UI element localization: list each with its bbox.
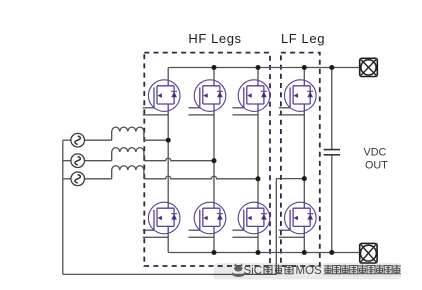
AC source V1 phase A <box>71 133 85 147</box>
AC source V3 phase C <box>71 172 85 186</box>
wire phase C from source to inductor <box>63 178 71 180</box>
watermark bar <box>214 263 402 279</box>
AC source V2 phase B <box>71 154 85 168</box>
mosfet Q2 HF leg 1 low side <box>143 202 180 237</box>
mosfet Q7 LF leg high side <box>279 80 316 115</box>
wire HF leg 2 vertical <box>213 68 215 253</box>
junction dot phase A leg1 <box>166 138 171 143</box>
junction dot leg2 bottom <box>212 250 217 255</box>
svg-text:SiC: SiC <box>244 265 263 277</box>
junction dot LF leg top <box>302 65 307 70</box>
svg-text:VDC: VDC <box>364 146 387 158</box>
wire neutral riser between boxes <box>275 179 277 275</box>
wire neutral left bus vertical <box>62 140 64 274</box>
wire neutral bottom run <box>63 273 276 275</box>
watermark mascot icon <box>232 263 245 277</box>
mosfet Q6 HF leg 3 low side <box>233 202 270 237</box>
mosfet Q3 HF leg 2 high side <box>189 80 226 115</box>
wire neutral to LF leg midpoint <box>276 178 304 180</box>
svg-text:LF Leg: LF Leg <box>281 31 325 46</box>
junction dot leg2 top <box>212 65 217 70</box>
wire phase B from source to inductor <box>63 160 71 162</box>
inductor L3 <box>112 166 144 179</box>
svg-text:OUT: OUT <box>365 160 388 172</box>
dashed box HF Legs <box>144 53 270 266</box>
wire phase C inductor to leg 3 with hops over legs 1 and 2 <box>144 176 258 179</box>
mosfet Q1 HF leg 1 high side <box>143 80 180 115</box>
junction dot phase C leg3 <box>256 176 261 181</box>
inductor L2 <box>112 148 144 161</box>
inductor L1 <box>112 127 144 140</box>
wire DC link capacitor branch <box>331 68 333 253</box>
junction dot leg3 bottom <box>256 250 261 255</box>
wire LF leg vertical <box>303 68 305 253</box>
svg-text:HF Legs: HF Legs <box>188 31 241 46</box>
wire top DC+ rail <box>168 67 360 69</box>
terminal DC- output <box>360 243 377 263</box>
junction dot neutral LF leg <box>302 176 307 181</box>
junction dot LF leg bottom <box>302 250 307 255</box>
terminal DC+ output <box>360 58 378 76</box>
wire HF leg 1 vertical <box>167 68 169 253</box>
wire phase A from source to inductor <box>63 139 71 141</box>
svg-text:MOS: MOS <box>296 265 323 277</box>
junction dot cap branch top <box>329 65 334 70</box>
capacitor C1 plates <box>324 150 340 155</box>
junction dot leg3 top <box>256 65 261 70</box>
wire bottom DC- rail <box>168 252 360 254</box>
wire phase A inductor to leg 1 <box>144 139 168 141</box>
junction dot phase B leg2 <box>212 158 217 163</box>
mosfet Q5 HF leg 3 high side <box>233 80 270 115</box>
mosfet Q8 LF leg low side <box>279 202 316 237</box>
junction dot cap branch bottom <box>329 250 334 255</box>
mosfet Q4 HF leg 2 low side <box>189 202 226 237</box>
wire HF leg 3 vertical <box>257 68 259 253</box>
dashed box LF Leg <box>281 53 320 266</box>
wire phase B inductor to leg 2 with hop over leg 1 <box>144 158 214 161</box>
